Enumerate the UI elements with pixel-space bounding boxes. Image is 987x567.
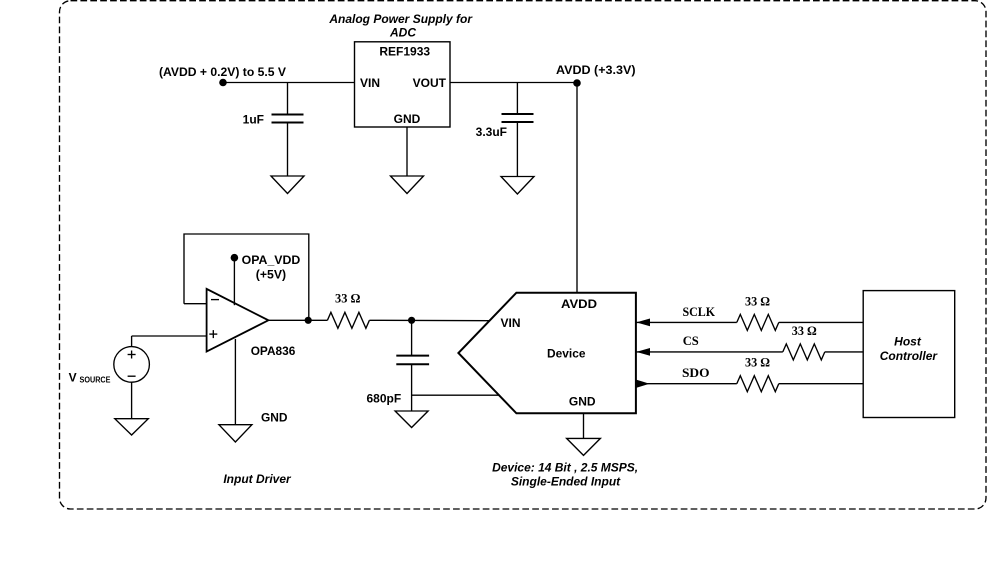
svg-text:AVDD: AVDD	[561, 297, 597, 311]
svg-text:Analog Power Supply for: Analog Power Supply for	[328, 12, 473, 26]
svg-text:33 Ω: 33 Ω	[745, 294, 770, 309]
svg-text:Input Driver: Input Driver	[223, 472, 292, 486]
svg-text:AVDD (+3.3V): AVDD (+3.3V)	[556, 63, 636, 77]
svg-text:GND: GND	[261, 411, 288, 425]
svg-text:(+5V): (+5V)	[256, 268, 286, 282]
svg-text:VIN: VIN	[501, 316, 521, 330]
svg-text:SOURCE: SOURCE	[80, 376, 112, 385]
svg-text:1uF: 1uF	[243, 113, 264, 127]
svg-text:Device: Device	[547, 347, 586, 361]
svg-text:Single-Ended Input: Single-Ended Input	[511, 475, 621, 489]
svg-text:VOUT: VOUT	[413, 76, 447, 90]
svg-text:GND: GND	[569, 395, 596, 409]
svg-text:3.3uF: 3.3uF	[476, 125, 507, 139]
svg-text:33 Ω: 33 Ω	[792, 323, 817, 338]
svg-text:CS: CS	[683, 333, 699, 348]
svg-text:OPA_VDD: OPA_VDD	[242, 253, 301, 267]
svg-text:33 Ω: 33 Ω	[335, 291, 361, 306]
svg-text:VIN: VIN	[360, 76, 380, 90]
svg-text:Device: 14 Bit , 2.5 MSPS,: Device: 14 Bit , 2.5 MSPS,	[492, 460, 638, 474]
svg-text:680pF: 680pF	[367, 392, 402, 406]
svg-text:SCLK: SCLK	[683, 304, 716, 319]
svg-text:33 Ω: 33 Ω	[745, 354, 770, 369]
svg-text:REF1933: REF1933	[379, 45, 430, 59]
svg-text:(AVDD + 0.2V) to 5.5 V: (AVDD + 0.2V) to 5.5 V	[159, 65, 286, 79]
svg-text:ADC: ADC	[389, 26, 416, 40]
svg-text:SDO: SDO	[682, 365, 710, 380]
svg-text:Controller: Controller	[880, 349, 939, 363]
svg-text:Host: Host	[894, 335, 922, 349]
svg-text:OPA836: OPA836	[251, 344, 296, 358]
svg-text:V: V	[69, 371, 77, 385]
svg-text:GND: GND	[394, 112, 421, 126]
